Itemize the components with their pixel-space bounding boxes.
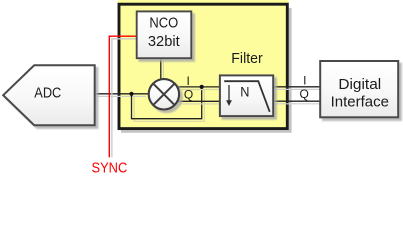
svg-text:I: I bbox=[303, 74, 306, 88]
svg-text:ADC: ADC bbox=[34, 86, 61, 102]
svg-text:Digital: Digital bbox=[338, 77, 381, 93]
wire mixer I output to filter bbox=[182, 89, 220, 91]
wire I bypass (input node down, along bottom, up to I line) bbox=[134, 90, 204, 122]
DDC block (yellow region) bbox=[118, 0, 292, 133]
NCO 32bit block bbox=[137, 11, 192, 58]
svg-text:Filter: Filter bbox=[231, 51, 263, 67]
svg-text:SYNC: SYNC bbox=[92, 161, 128, 177]
svg-text:Q: Q bbox=[300, 87, 309, 101]
wire filter to digital interface, I bbox=[276, 88, 320, 90]
node: I line junction dot bbox=[200, 85, 204, 89]
node: input junction dot bbox=[129, 92, 133, 96]
SYNC net (red wire) bbox=[112, 39, 136, 158]
filter / decimator block bbox=[220, 75, 273, 116]
wire filter to digital interface, Q bbox=[276, 103, 320, 105]
svg-text:N: N bbox=[240, 83, 249, 99]
svg-text:32bit: 32bit bbox=[148, 34, 180, 50]
svg-text:I: I bbox=[187, 74, 190, 88]
svg-text:Q: Q bbox=[184, 87, 193, 101]
filter response curve bbox=[224, 81, 270, 112]
Digital Interface block bbox=[320, 61, 398, 117]
wire ADC output to mixer bbox=[98, 95, 146, 97]
wire mixer Q output to filter bbox=[180, 103, 220, 105]
ADC converter block bbox=[3, 65, 95, 125]
mixer (multiplier) bbox=[149, 79, 179, 109]
svg-text:NCO: NCO bbox=[149, 16, 178, 32]
decimation down-arrow bbox=[228, 85, 230, 101]
wire NCO to mixer bbox=[162, 61, 164, 80]
svg-text:Interface: Interface bbox=[331, 95, 389, 111]
